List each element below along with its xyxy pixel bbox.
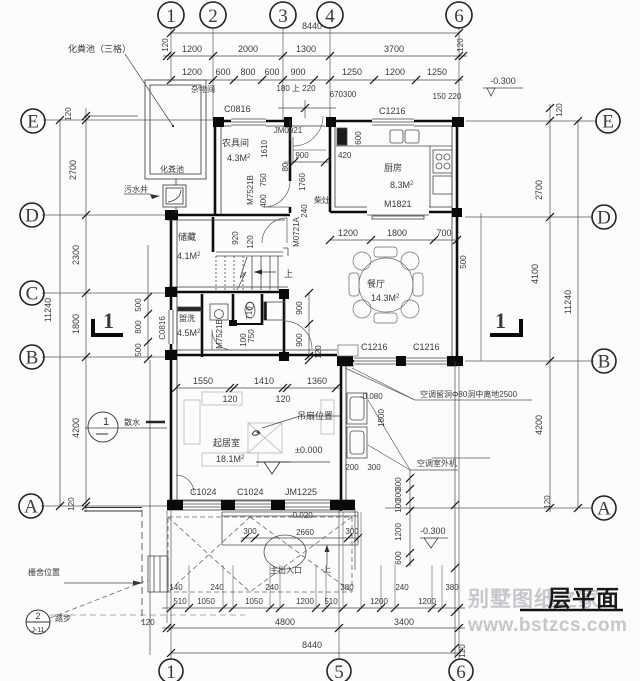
svg-text:E: E [602, 112, 614, 133]
svg-text:670300: 670300 [330, 90, 357, 99]
svg-text:180 上 220: 180 上 220 [276, 84, 316, 93]
svg-text:100: 100 [394, 499, 403, 513]
svg-text:150 220: 150 220 [433, 92, 462, 101]
svg-text:2000: 2000 [238, 44, 258, 54]
svg-text:1800: 1800 [71, 314, 81, 334]
svg-text:900: 900 [295, 333, 304, 347]
svg-text:240: 240 [265, 583, 279, 592]
svg-text:700: 700 [436, 228, 451, 238]
svg-text:4100: 4100 [530, 264, 540, 284]
svg-text:120: 120 [246, 235, 255, 249]
svg-text:1200: 1200 [418, 597, 436, 606]
svg-text:500: 500 [134, 343, 143, 357]
svg-text:www.bstzcs.com: www.bstzcs.com [467, 615, 627, 636]
svg-text:A: A [597, 499, 611, 520]
svg-text:M0721A: M0721A [292, 216, 301, 246]
svg-text:M7521B: M7521B [215, 319, 224, 349]
svg-text:1: 1 [166, 6, 176, 27]
svg-text:8440: 8440 [302, 21, 322, 31]
svg-text:120: 120 [161, 38, 170, 52]
svg-text:8440: 8440 [302, 640, 322, 650]
svg-text:-0.300: -0.300 [420, 526, 446, 536]
svg-text:1250: 1250 [427, 67, 447, 77]
svg-text:1200: 1200 [296, 597, 314, 606]
svg-text:510: 510 [324, 597, 338, 606]
svg-text:M7521B: M7521B [246, 175, 255, 205]
svg-text:120: 120 [555, 103, 564, 117]
svg-text:JM0921: JM0921 [274, 126, 303, 135]
svg-text:800: 800 [240, 67, 255, 77]
svg-text:上: 上 [284, 269, 293, 279]
svg-text:上: 上 [323, 565, 331, 574]
svg-text:900: 900 [290, 67, 305, 77]
svg-text:D: D [597, 208, 611, 229]
svg-text:380: 380 [340, 583, 354, 592]
svg-text:4.3M2: 4.3M2 [227, 153, 251, 163]
svg-text:2300: 2300 [71, 245, 81, 265]
svg-text:120: 120 [314, 345, 323, 359]
svg-text:500: 500 [134, 298, 143, 312]
svg-text:3: 3 [278, 6, 288, 27]
svg-text:化粪池: 化粪池 [160, 164, 184, 174]
svg-text:J-11: J-11 [31, 627, 44, 634]
svg-text:600: 600 [394, 551, 403, 565]
svg-text:1760: 1760 [298, 173, 307, 191]
svg-text:14.3M2: 14.3M2 [371, 293, 400, 303]
svg-text:420: 420 [338, 151, 352, 160]
svg-text:2700: 2700 [68, 160, 78, 180]
svg-text:层平面: 层平面 [548, 585, 620, 611]
svg-text:4800: 4800 [275, 617, 295, 627]
svg-text:3700: 3700 [384, 44, 404, 54]
svg-text:±0.000: ±0.000 [295, 445, 322, 455]
svg-text:920: 920 [231, 231, 240, 245]
svg-text:120: 120 [275, 394, 290, 404]
svg-text:空调室外机: 空调室外机 [417, 458, 457, 468]
svg-text:900: 900 [295, 301, 304, 315]
svg-text:M1821: M1821 [384, 199, 412, 209]
svg-text:1: 1 [103, 416, 109, 428]
svg-text:2660: 2660 [296, 528, 314, 537]
svg-text:400: 400 [259, 194, 268, 208]
svg-text:C: C [26, 284, 39, 305]
svg-text:8.3M2: 8.3M2 [390, 180, 414, 190]
svg-text:A: A [24, 497, 38, 518]
svg-text:吊扇位置: 吊扇位置 [297, 410, 333, 421]
svg-text:C0816: C0816 [158, 316, 167, 340]
svg-text:1610: 1610 [260, 140, 269, 158]
svg-text:空调留洞Φ80洞中离地2500: 空调留洞Φ80洞中离地2500 [420, 389, 518, 399]
svg-text:380: 380 [445, 583, 459, 592]
svg-text:120: 120 [222, 394, 237, 404]
svg-text:B: B [598, 352, 611, 373]
svg-text:C0816: C0816 [224, 104, 251, 114]
svg-text:120: 120 [67, 497, 76, 511]
svg-text:240: 240 [210, 583, 224, 592]
svg-text:1550: 1550 [193, 376, 213, 386]
svg-text:11240: 11240 [563, 290, 573, 314]
svg-text:C1024: C1024 [237, 487, 264, 497]
svg-text:750: 750 [259, 173, 268, 187]
svg-text:510: 510 [173, 597, 187, 606]
svg-text:杂物间: 杂物间 [191, 84, 215, 94]
svg-text:120: 120 [458, 644, 467, 658]
svg-text:C1216: C1216 [361, 342, 388, 352]
svg-text:600: 600 [354, 131, 363, 145]
svg-text:4: 4 [325, 6, 335, 27]
svg-text:2700: 2700 [534, 180, 544, 200]
svg-text:1360: 1360 [307, 376, 327, 386]
svg-text:柴灶: 柴灶 [314, 195, 330, 205]
svg-text:储藏: 储藏 [178, 231, 196, 242]
svg-text:C1216: C1216 [379, 106, 406, 116]
svg-text:栅舍位置: 栅舍位置 [28, 567, 60, 577]
svg-text:1250: 1250 [342, 67, 362, 77]
svg-text:1: 1 [495, 308, 506, 333]
svg-text:1050: 1050 [197, 597, 215, 606]
svg-text:300: 300 [345, 527, 359, 536]
svg-text:120: 120 [543, 495, 552, 509]
svg-text:18.1M2: 18.1M2 [216, 454, 245, 464]
svg-text:1: 1 [166, 662, 176, 681]
svg-text:起居室: 起居室 [213, 437, 240, 448]
svg-text:750: 750 [247, 329, 256, 343]
svg-text:1800: 1800 [377, 409, 386, 427]
svg-text:1050: 1050 [245, 597, 263, 606]
svg-text:1200: 1200 [338, 228, 358, 238]
svg-text:1200: 1200 [182, 44, 202, 54]
svg-text:1410: 1410 [254, 376, 274, 386]
svg-text:120: 120 [141, 618, 155, 627]
svg-text:1200: 1200 [394, 523, 403, 541]
svg-text:-0.300: -0.300 [490, 76, 516, 86]
svg-text:120: 120 [456, 38, 465, 52]
svg-text:2: 2 [35, 611, 40, 621]
svg-text:6: 6 [456, 662, 466, 681]
svg-text:4200: 4200 [71, 418, 81, 438]
svg-text:6: 6 [454, 6, 464, 27]
svg-text:主出入口: 主出入口 [270, 565, 302, 575]
svg-text:污水井: 污水井 [124, 184, 148, 194]
svg-text:1200: 1200 [370, 597, 388, 606]
svg-text:240: 240 [300, 204, 309, 218]
svg-text:5: 5 [334, 662, 344, 681]
svg-text:D: D [25, 206, 39, 227]
svg-text:厨房: 厨房 [384, 162, 402, 173]
svg-text:1800: 1800 [387, 228, 407, 238]
svg-text:2: 2 [208, 6, 218, 27]
svg-text:80: 80 [281, 162, 290, 171]
svg-text:11240: 11240 [43, 298, 53, 322]
svg-text:800: 800 [134, 320, 143, 334]
svg-text:化粪池（三格）: 化粪池（三格） [68, 43, 131, 54]
svg-text:盥洗: 盥洗 [179, 313, 195, 323]
svg-text:1200: 1200 [182, 67, 202, 77]
svg-text:1300: 1300 [296, 44, 316, 54]
svg-text:-0.020: -0.020 [290, 511, 313, 520]
svg-text:C1024: C1024 [190, 487, 217, 497]
svg-text:120: 120 [64, 107, 73, 121]
svg-text:600: 600 [264, 67, 279, 77]
svg-text:农具间: 农具间 [222, 137, 249, 148]
svg-text:C1216: C1216 [413, 342, 440, 352]
svg-text:300: 300 [243, 527, 257, 536]
svg-text:踏步: 踏步 [55, 613, 71, 623]
svg-text:B: B [26, 348, 39, 369]
svg-text:300: 300 [367, 463, 381, 472]
svg-text:1200: 1200 [385, 67, 405, 77]
svg-text:E: E [27, 112, 39, 133]
svg-text:散水: 散水 [124, 417, 140, 427]
svg-text:3400: 3400 [394, 617, 414, 627]
svg-text:600: 600 [215, 67, 230, 77]
svg-text:1: 1 [103, 308, 114, 333]
svg-text:餐厅: 餐厅 [367, 278, 385, 289]
svg-text:4200: 4200 [534, 415, 544, 435]
svg-text:900: 900 [295, 151, 309, 160]
svg-text:4.1M2: 4.1M2 [177, 251, 201, 261]
svg-text:4.5M2: 4.5M2 [177, 328, 201, 338]
svg-text:240: 240 [395, 583, 409, 592]
svg-text:140: 140 [169, 583, 183, 592]
svg-text:500: 500 [459, 255, 468, 269]
svg-text:JM1225: JM1225 [285, 487, 317, 497]
svg-text:200: 200 [345, 463, 359, 472]
svg-text:-0.080: -0.080 [360, 392, 383, 401]
svg-text:710: 710 [245, 306, 254, 320]
